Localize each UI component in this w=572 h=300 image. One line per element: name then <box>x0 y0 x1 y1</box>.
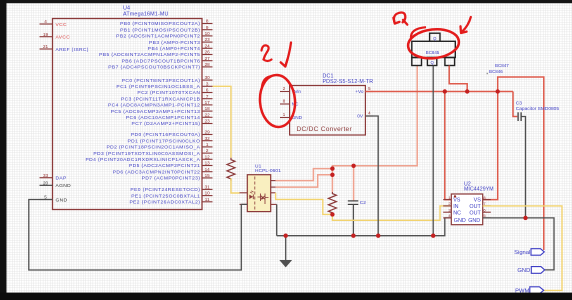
junction node <box>431 234 435 238</box>
U2 pin 6 <box>483 207 491 212</box>
svg-text:GND: GND <box>56 197 68 203</box>
svg-text:BC847: BC847 <box>495 63 509 68</box>
U4 pin 5 GND <box>40 195 68 204</box>
U4 pin 28 PB7 <box>108 62 212 71</box>
U4 pin 17 PC4 <box>108 100 213 109</box>
svg-text:18: 18 <box>205 106 211 111</box>
svg-text:20: 20 <box>43 180 49 185</box>
svg-text:PE0 (PCINT24RESETOCD): PE0 (PCINT24RESETOCD) <box>130 187 200 193</box>
junction node <box>284 234 288 238</box>
U2 pin 1 <box>443 195 451 200</box>
svg-text:AVCC: AVCC <box>56 35 71 41</box>
DC1 pin 2 +Vin <box>280 86 301 94</box>
U4 pin 22 PC6 <box>126 112 213 121</box>
wire rail to C3 <box>513 92 517 117</box>
svg-text:MIC4429YM: MIC4429YM <box>464 187 494 193</box>
svg-text:PC3 (PCINT11T1RXCANICP1B: PC3 (PCINT11T1RXCANICP1B <box>121 96 200 102</box>
svg-text:15: 15 <box>205 173 211 178</box>
svg-text:Capacitor SMD0805: Capacitor SMD0805 <box>516 106 560 112</box>
U4 pin 20 AGND <box>40 180 72 189</box>
U2 pin 2 <box>443 201 451 206</box>
U4 pin 21 AREF (ISRC) <box>40 44 89 53</box>
svg-text:PC5 (ADC9ACMP3AMP1+PCINT13: PC5 (ADC9ACMP3AMP1+PCINT13 <box>111 109 201 115</box>
U1 pin gnd <box>271 203 277 205</box>
DC1 pin 1 GND <box>280 112 303 120</box>
U4 pin 6 PC2 <box>137 88 212 97</box>
annotation red circle around DC1 pins <box>258 74 297 128</box>
svg-text:13: 13 <box>205 161 211 166</box>
junction node <box>443 89 447 93</box>
U4 pin 1 PD2 <box>106 142 212 151</box>
U4 pin 2 PD3 <box>93 148 212 157</box>
svg-text:6: 6 <box>206 88 209 93</box>
wire rail to Signal port <box>498 77 544 250</box>
wire rail to U2 VS8 <box>483 92 498 200</box>
U1 pin anode <box>240 192 248 194</box>
wire U1 gnd drop <box>276 204 278 235</box>
svg-text:23: 23 <box>205 37 211 42</box>
svg-text:HCPL-0601: HCPL-0601 <box>255 168 281 174</box>
svg-text:+Vo: +Vo <box>355 89 364 94</box>
U4 pin 29 PD0 <box>131 130 213 139</box>
wire Q1 middle pad down <box>432 66 434 236</box>
svg-text:30: 30 <box>205 75 211 80</box>
svg-text:32: 32 <box>205 136 211 141</box>
U4 pin 8 PB0 <box>120 19 212 28</box>
U4 pin 7 PC3 <box>121 94 212 103</box>
U4 pin 33 DAP <box>40 173 67 182</box>
stray mark <box>487 73 488 74</box>
port PWM <box>515 287 544 295</box>
DC1 pin 8 NC <box>280 99 299 107</box>
svg-text:GND: GND <box>517 268 530 274</box>
svg-text:4: 4 <box>44 19 47 24</box>
svg-text:31: 31 <box>205 185 211 190</box>
U1 pin enable <box>271 192 276 194</box>
annotation arrow to Q1 <box>461 17 471 33</box>
junction node <box>376 234 380 238</box>
svg-text:PB2 (ADC5INT1ACMPN0PCINT2: PB2 (ADC5INT1ACMPN0PCINT2 <box>116 34 200 40</box>
DC1 pin 5 +Vo <box>355 86 373 94</box>
svg-text:IN: IN <box>453 204 458 210</box>
U4 pin 18 PC5 <box>111 106 213 115</box>
svg-text:PE2 (PCINT26ADC0XTAL2): PE2 (PCINT26ADC0XTAL2) <box>129 200 200 206</box>
U4 pin 27 PB6 <box>122 56 213 65</box>
U4 pin 14 PD6 <box>113 167 213 176</box>
U4 pin 19 AVCC <box>40 32 71 41</box>
svg-text:PD0 (PCINT16PSCOUT0A): PD0 (PCINT16PSCOUT0A) <box>131 132 200 138</box>
svg-text:PD2 (PCINT18PSCIN2OC1AMISO_A: PD2 (PCINT18PSCIN2OC1AMISO_A <box>106 145 200 151</box>
wire rail to U2 VS1 <box>445 92 452 200</box>
svg-text:10: 10 <box>205 31 211 36</box>
svg-text:PB7 (ADC4PSCOUT0BSCKPCINT7): PB7 (ADC4PSCOUT0BSCKPCINT7) <box>108 65 200 71</box>
svg-text:Signal: Signal <box>514 250 530 256</box>
svg-text:14: 14 <box>205 167 211 172</box>
U1 pin cathode <box>240 203 248 205</box>
svg-text:11: 11 <box>205 197 210 202</box>
U1 pin vcc <box>271 180 276 182</box>
U1 pin vo <box>271 186 276 188</box>
svg-text:GND: GND <box>468 218 480 224</box>
wire U1 vcc to node (salmon) <box>276 169 333 181</box>
junction node <box>496 89 500 93</box>
annotation red circle around Q1 <box>407 27 461 61</box>
svg-text:8: 8 <box>206 19 209 24</box>
wire U2 GND to GND port <box>483 218 554 270</box>
svg-text:17: 17 <box>205 100 211 105</box>
junction node <box>465 89 469 93</box>
svg-text:C2: C2 <box>360 200 366 206</box>
U2 pin 3 <box>443 207 451 212</box>
svg-text:12: 12 <box>205 154 211 159</box>
wire U1 enable to U2 IN (yellow) <box>276 193 452 221</box>
svg-text:C3: C3 <box>516 101 522 107</box>
junction node <box>351 164 355 168</box>
svg-text:29: 29 <box>205 130 211 135</box>
wire U1 vo to node (salmon) <box>276 175 333 187</box>
port Signal <box>514 249 544 257</box>
U2 pin 7 <box>483 201 491 206</box>
U4 pin 23 PB3 <box>149 37 212 46</box>
U4 pin 24 PB4 <box>148 43 213 52</box>
svg-text:1: 1 <box>206 142 209 147</box>
svg-text:PD5 (ADC2ACMP2PCINT21: PD5 (ADC2ACMP2PCINT21 <box>129 163 200 169</box>
svg-text:PC2 (PCINT10T0TXCAN: PC2 (PCINT10T0TXCAN <box>137 90 200 96</box>
capacitor C2 <box>348 200 366 206</box>
svg-text:22: 22 <box>205 112 211 117</box>
junction node <box>330 173 334 177</box>
wire U4 GND to U1 cathode (gnd net) <box>29 200 248 271</box>
svg-text:PDS2-S5-S12-M-TR: PDS2-S5-S12-M-TR <box>323 79 374 85</box>
optocoupler U1 HCPL-0601 <box>247 163 281 211</box>
wire gnd bus <box>277 218 452 236</box>
svg-text:10: 10 <box>205 191 211 196</box>
wire C2 to gnd bus <box>352 204 354 235</box>
wire PC1 to R1 (yellow) <box>213 86 232 157</box>
svg-text:OUT: OUT <box>469 204 481 210</box>
wire C2 drop (salmon) <box>353 166 355 201</box>
svg-text:PC7 (D2AAMP2+PCINT15): PC7 (D2AAMP2+PCINT15) <box>132 121 201 127</box>
U1 detector symbol <box>258 194 269 205</box>
port GND <box>517 267 544 275</box>
svg-text:VS: VS <box>453 198 461 204</box>
U4 pin 4 VCC <box>40 19 67 28</box>
svg-text:PC0 (PCINT8INT3PSCOUT1A): PC0 (PCINT8INT3PSCOUT1A) <box>122 78 201 84</box>
svg-text:DAP: DAP <box>56 176 67 182</box>
svg-text:PB0 (PCINT0MISOPSCOUT2A): PB0 (PCINT0MISOPSCOUT2A) <box>120 21 200 27</box>
annotation check arrow top <box>393 12 407 24</box>
IC U2 MIC4429YM <box>451 182 493 225</box>
svg-text:23: 23 <box>205 119 211 124</box>
U4 pin 10 PB2 <box>116 31 212 40</box>
junction node <box>523 216 527 220</box>
U4 pin 31 PE0 <box>130 185 212 194</box>
transistor Q1 BC845 footprint <box>412 33 456 65</box>
annotation arc overlap on DC1 circle <box>262 76 271 87</box>
junction node <box>330 212 334 216</box>
U4 pin 10 PE1 <box>131 191 212 200</box>
U4 pin 15 PD7 <box>142 173 213 182</box>
svg-text:AREF (ISRC): AREF (ISRC) <box>56 47 89 53</box>
svg-text:VS: VS <box>474 198 482 204</box>
resistor R1 <box>227 158 235 181</box>
wire Q1 right pad to rail <box>449 66 467 92</box>
svg-text:AGND: AGND <box>56 183 72 189</box>
svg-text:PE1 (PCINT25OC0BXTAL1: PE1 (PCINT25OC0BXTAL1 <box>131 193 200 199</box>
U2 pin 8 <box>483 195 491 200</box>
svg-text:9: 9 <box>206 25 209 30</box>
svg-text:BC846: BC846 <box>489 69 503 74</box>
annotation arc overlap on Q1 circle <box>411 27 426 38</box>
svg-text:PD6 (ADC3ACMPN2INT0PCINT22: PD6 (ADC3ACMPN2INT0PCINT22 <box>113 169 201 175</box>
svg-text:GND: GND <box>454 218 466 224</box>
U4 pin 9 PB1 <box>120 25 212 34</box>
DC/DC converter DC1 PDS2-S5-S12-M-TR <box>290 73 374 135</box>
svg-text:NC: NC <box>453 210 461 216</box>
junction node <box>330 166 334 170</box>
svg-text:24: 24 <box>205 43 211 48</box>
wire C3 to gnd <box>522 117 526 218</box>
U1 LED symbol <box>249 191 253 199</box>
wire node to R2 (salmon vertical) <box>332 66 417 193</box>
svg-text:21: 21 <box>43 44 49 49</box>
svg-text:26: 26 <box>205 50 211 55</box>
svg-text:33: 33 <box>43 173 49 178</box>
svg-text:2: 2 <box>206 148 209 153</box>
wire +12V rail <box>365 91 513 93</box>
annotation arrow to DC1 pins <box>281 43 291 67</box>
resistor R2 <box>328 192 336 214</box>
svg-text:PB6 (ADC7PSCOUT1BPCINT6: PB6 (ADC7PSCOUT1BPCINT6 <box>122 58 201 64</box>
svg-text:3: 3 <box>206 81 209 86</box>
svg-text:VCC: VCC <box>56 22 67 28</box>
wire U2 OUT to PWM port (yellow) <box>483 206 562 291</box>
svg-text:PC1 (PCINT9PSCIN1OC1BSS_A: PC1 (PCINT9PSCIN1OC1BSS_A <box>116 84 200 90</box>
U4 pin 11 PE2 <box>129 197 212 206</box>
svg-text:PC4 (ADC8ACMPN3AMP1-PCINT12: PC4 (ADC8ACMPN3AMP1-PCINT12 <box>108 103 200 109</box>
svg-text:19: 19 <box>43 32 49 37</box>
U4 pin 3 PC1 <box>116 81 212 90</box>
U2 pin 5 <box>483 213 491 218</box>
annotation handwritten 2 <box>262 45 272 61</box>
svg-text:PD7 (ACMP0PCINT23): PD7 (ACMP0PCINT23) <box>142 176 201 182</box>
svg-text:0V: 0V <box>357 114 364 119</box>
wire R1 to U1 anode (yellow) <box>231 178 240 193</box>
svg-text:PB5 (ADC6INT2ACMPN1AMP2-PCINT5: PB5 (ADC6INT2ACMPN1AMP2-PCINT5 <box>99 52 200 58</box>
svg-text:7: 7 <box>206 94 209 99</box>
svg-text:28: 28 <box>205 62 211 67</box>
svg-text:OUT: OUT <box>469 210 481 216</box>
svg-text:PB3 (AMP0-PCINT3: PB3 (AMP0-PCINT3 <box>149 40 200 46</box>
U4 pin 12 PD4 <box>85 154 212 163</box>
svg-text:PC6 (ADC10ACMP1PCINT14: PC6 (ADC10ACMP1PCINT14 <box>126 115 200 121</box>
IC U4 ATmega16M1-MU body <box>53 6 203 210</box>
wire DC1 0V drop <box>365 116 378 236</box>
svg-text:ATmega16M1-MU: ATmega16M1-MU <box>123 11 169 17</box>
svg-text:PD3 (PCINT19TXDTXLIN0C0ASSMOSI: PD3 (PCINT19TXDTXLIN0C0ASSMOSI_A <box>93 151 200 157</box>
svg-text:PB4 (AMP0+PCINT4: PB4 (AMP0+PCINT4 <box>148 46 201 52</box>
ground symbol <box>279 236 292 268</box>
svg-text:PD1 (PCINT17PSCIN0CLKO: PD1 (PCINT17PSCIN0CLKO <box>127 138 200 144</box>
svg-text:PD4 (PCINT20ADC1RXDRXLINICP1AS: PD4 (PCINT20ADC1RXDRXLINICP1ASCK_A <box>85 157 200 163</box>
svg-text:27: 27 <box>205 56 211 61</box>
U4 pin 26 PB5 <box>99 50 212 59</box>
svg-text:BC845: BC845 <box>426 50 440 55</box>
U4 pin 13 PD5 <box>129 161 213 170</box>
U2 pin 4 <box>443 213 451 218</box>
capacitor C3 <box>516 101 560 121</box>
U4 pin 23 PC7 <box>132 119 213 128</box>
DC1 pin 4 0V <box>357 111 373 119</box>
junction node <box>351 234 355 238</box>
U4 pin 30 PC0 <box>122 75 213 84</box>
svg-text:PB1 (PCINT1MOSIPSCOUT2B): PB1 (PCINT1MOSIPSCOUT2B) <box>120 27 200 33</box>
svg-text:DC/DC Converter: DC/DC Converter <box>297 126 353 133</box>
U4 pin 32 PD1 <box>127 136 212 145</box>
